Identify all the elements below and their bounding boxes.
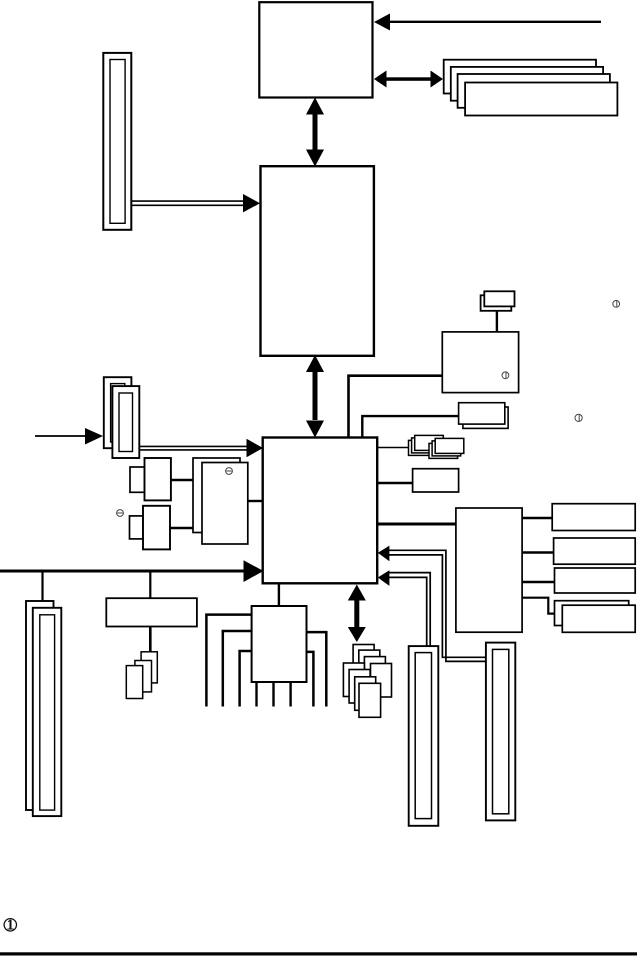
CPU box bbox=[259, 2, 372, 97]
wire: keyboard controller bottom pin 1 bbox=[255, 681, 257, 707]
wire: bus drop to PCI slot bbox=[41, 571, 43, 602]
wire: RJ45 stack stem to LAN chip bbox=[496, 310, 498, 333]
super I/O box bbox=[456, 508, 522, 632]
wire: IDE channel 1 double-line arrow into south bridge bbox=[378, 570, 430, 646]
wire: super I/O to peripheral box 3 bbox=[522, 581, 555, 584]
IDE connector 2 bbox=[486, 643, 515, 821]
peripheral box 3 bbox=[555, 568, 636, 593]
wire: BIOS box to flash stack bbox=[149, 626, 152, 653]
wire: keyboard controller left lead 3 bbox=[240, 651, 252, 707]
wire: south bridge to super I/O bbox=[377, 523, 456, 526]
footer rule bbox=[0, 952, 637, 955]
modem codec A box bbox=[145, 458, 171, 500]
PCI slot connector (stacked pair, bottom left) bbox=[26, 601, 61, 816]
wire: chip C to south bridge bbox=[248, 500, 263, 502]
wire: keyboard controller bottom pin 2 bbox=[272, 681, 274, 707]
RJ45 connector stack bbox=[481, 291, 515, 311]
game port connector fan left bbox=[409, 435, 444, 455]
modem codec A side tab bbox=[130, 467, 145, 492]
wire: clock input line to CPU bbox=[374, 14, 601, 31]
modem codec B box bbox=[143, 506, 170, 550]
footnote mark in LAN chip bbox=[502, 372, 509, 379]
wire: keyboard controller left lead 2 bbox=[223, 631, 252, 707]
USB stack fan lower bbox=[343, 663, 380, 717]
wire: CPU to north bridge vertical double arrow bbox=[306, 98, 324, 167]
footnote mark near codec bbox=[575, 414, 582, 421]
wire: AGP slot to north bridge double-line arrow bbox=[132, 194, 260, 212]
wire: bus drop to BIOS box bbox=[149, 571, 151, 599]
wire: codec chip to south bridge bbox=[362, 416, 458, 438]
south bridge box bbox=[263, 438, 378, 584]
footnote symbol 1 (bottom left) bbox=[4, 919, 16, 931]
wire: LAN chip to south bridge bbox=[349, 376, 443, 438]
wire: south bridge to keyboard controller bbox=[278, 583, 280, 607]
LAN chip box bbox=[442, 332, 518, 393]
footnote mark near modem codec B bbox=[117, 510, 124, 517]
wire: super I/O to peripheral box 4 bbox=[522, 598, 563, 614]
peripheral box 4 with shadow bbox=[555, 601, 636, 633]
wire: super I/O to peripheral box 2 bbox=[522, 551, 554, 554]
wire: CPU to memory front-side bus double arrow bbox=[374, 71, 443, 88]
keyboard controller box bbox=[252, 606, 307, 682]
wire: modem codec B to chip C bbox=[170, 527, 194, 529]
peripheral box 1 bbox=[552, 504, 635, 531]
wire: south bridge to audio box bbox=[377, 482, 414, 485]
wire: south bridge to USB stack vertical double arrow bbox=[348, 585, 366, 643]
wire: keyboard controller left lead 1 bbox=[206, 615, 252, 707]
AMR slot connector (stacked pair) bbox=[104, 377, 140, 458]
wire: south bridge to game port stack bbox=[377, 447, 409, 449]
wire: IDE channel 2 double-line arrow into south bridge bbox=[378, 546, 486, 662]
footnote mark near memory bbox=[613, 301, 620, 308]
wire: AMR slot to south bridge double-line arrow bbox=[140, 439, 264, 457]
modem codec B side tab bbox=[130, 516, 144, 539]
footnote mark in chip C bbox=[226, 468, 233, 475]
USB stack fan upper bbox=[353, 645, 391, 698]
wire: super I/O to peripheral box 1 bbox=[522, 517, 553, 520]
audio jacks box bbox=[413, 469, 459, 492]
IDE connector 1 bbox=[409, 646, 439, 826]
wire: keyboard controller right lead 2 bbox=[306, 652, 313, 707]
wire: north bridge to south bridge vertical double arrow bbox=[306, 355, 324, 438]
wire: keyboard controller bottom pin 3 bbox=[289, 681, 291, 707]
codec chip box with shadow bbox=[459, 403, 509, 429]
wire: input arrow to AMR slot bbox=[35, 428, 103, 445]
peripheral box 2 bbox=[554, 538, 636, 564]
flash chip stack bbox=[126, 652, 157, 699]
AGP slot connector (top left) bbox=[103, 53, 131, 230]
memory module stack bbox=[444, 60, 618, 116]
north bridge box bbox=[261, 166, 374, 356]
chip C box with shadow bbox=[193, 458, 248, 544]
wire: keyboard controller right lead 1 bbox=[306, 632, 326, 706]
wire: PCI bus line with arrow into south bridge bbox=[0, 560, 264, 582]
game port connector fan right bbox=[429, 438, 464, 458]
wire: modem codec A to chip C bbox=[171, 479, 194, 481]
BIOS box bbox=[106, 598, 197, 626]
